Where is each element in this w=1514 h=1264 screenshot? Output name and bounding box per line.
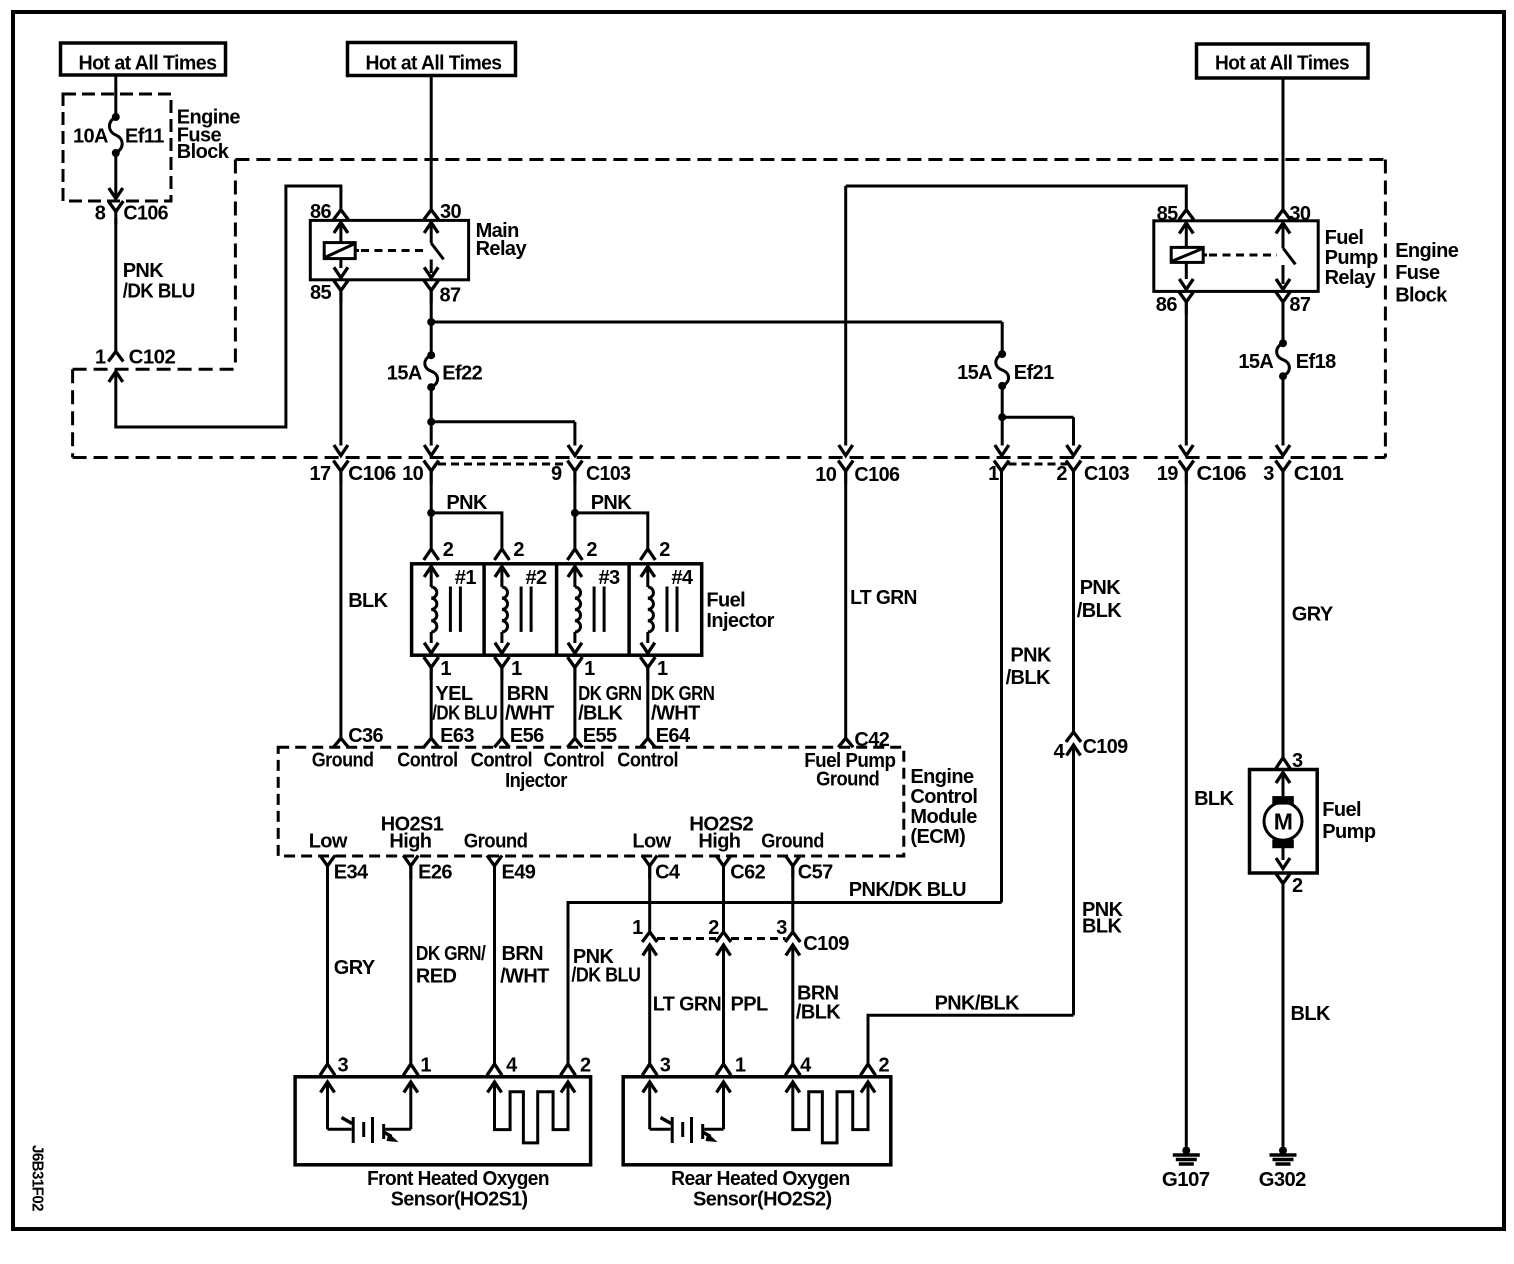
svg-text:/BLK: /BLK (796, 1002, 841, 1024)
svg-text:Control: Control (910, 786, 977, 808)
svg-text:C109: C109 (803, 933, 849, 955)
svg-text:Engine: Engine (1395, 240, 1459, 262)
HO2S1 pin 4 (female) (487, 1064, 502, 1075)
svg-text:C102: C102 (129, 347, 176, 369)
HO2S2 pin 1 (female) (716, 1064, 731, 1075)
wire BLK fuel pump to G302 (1282, 883, 1285, 1147)
svg-text:Engine: Engine (910, 766, 974, 788)
svg-text:1: 1 (657, 658, 668, 680)
connector link dashed C103 10-9 (438, 463, 568, 466)
svg-text:C101: C101 (1294, 463, 1344, 485)
svg-text:10: 10 (402, 463, 424, 485)
svg-text:2: 2 (513, 539, 524, 561)
connector C106 pin 17 (female Y) (333, 461, 348, 472)
svg-text:4: 4 (1054, 741, 1066, 763)
wire fuel pump relay 85 feed (horizontal) (846, 186, 1187, 211)
svg-text:Relay: Relay (476, 238, 528, 260)
wire main relay 85 to C106-17 (339, 290, 342, 446)
svg-text:Ground: Ground (464, 831, 528, 853)
svg-text:1: 1 (632, 917, 643, 939)
svg-text:Hot at All Times: Hot at All Times (79, 53, 217, 75)
svg-text:Front Heated Oxygen: Front Heated Oxygen (367, 1168, 549, 1190)
svg-text:M: M (1274, 809, 1293, 835)
connector C103 pin 10 (female Y) (424, 461, 439, 472)
svg-text:Injector: Injector (706, 610, 774, 632)
ECM pin C57 (Y) (785, 855, 800, 866)
engine fuse block boundary (dashed, left lower edge) (71, 369, 74, 457)
svg-text:87: 87 (440, 285, 462, 307)
wire PNK to injector 1 (430, 513, 433, 549)
pin arrow into C103-2 (1067, 445, 1081, 456)
svg-text:#4: #4 (671, 567, 694, 589)
svg-text:C103: C103 (586, 463, 631, 485)
wire C4 to C109-1 (648, 866, 651, 932)
svg-text:Module: Module (910, 806, 977, 828)
pin arrow out of C102-1 (109, 372, 123, 383)
svg-text:/DK BLU: /DK BLU (432, 703, 497, 725)
svg-text:E26: E26 (418, 862, 452, 884)
wire C103-10 down (430, 471, 433, 513)
svg-text:3: 3 (338, 1055, 349, 1077)
ground G107 (1182, 1147, 1190, 1155)
connector C103 pin 9 (female Y) (567, 461, 582, 472)
svg-text:PNK: PNK (446, 492, 488, 514)
svg-text:Ef11: Ef11 (125, 126, 164, 148)
ECM pin C4 (Y) (642, 855, 657, 866)
connector C109 pin 3 (chevron) (785, 932, 800, 942)
pin arrow out of C109-4 (1067, 745, 1081, 756)
fuse Ef22 15A (427, 351, 435, 359)
svg-text:1: 1 (988, 463, 999, 485)
fuse Ef11 10A (112, 113, 120, 121)
svg-text:/BLK: /BLK (1077, 600, 1122, 622)
connector C109 pin 2 (chevron) (716, 932, 731, 942)
connector C103 pin 1 (female Y) (994, 461, 1009, 472)
ECM pin E55 (female) (567, 738, 582, 747)
fuel pump relay K2 box (1154, 221, 1318, 292)
svg-text:2: 2 (443, 539, 454, 561)
main relay pin 86 (chevron) (333, 210, 348, 220)
wire BLK C106-17 to ECM C36 (339, 471, 342, 738)
pin arrow into C106-10 (839, 445, 853, 456)
svg-text:#3: #3 (599, 567, 621, 589)
engine fuse block (dashed box, top left) (63, 94, 171, 201)
svg-text:Ground: Ground (816, 769, 879, 791)
wire Ef21 down (1001, 386, 1004, 417)
svg-text:C103: C103 (1084, 463, 1130, 485)
svg-text:E34: E34 (334, 862, 369, 884)
svg-text:4: 4 (800, 1055, 812, 1077)
svg-text:/BLK: /BLK (578, 703, 623, 725)
svg-text:Ground: Ground (312, 750, 374, 772)
fuel pump relay pin 30 (chevron) (1276, 210, 1291, 220)
svg-text:PNK: PNK (123, 260, 165, 282)
svg-text:87: 87 (1289, 294, 1311, 316)
engine fuse block boundary (dashed, bottom edge) (73, 456, 1386, 459)
injector cell divider 1 (482, 564, 486, 655)
svg-text:PNK: PNK (1010, 645, 1052, 667)
svg-text:15A: 15A (1238, 351, 1273, 373)
injector #1 pin 1 (Y) (424, 657, 439, 668)
svg-text:19: 19 (1157, 463, 1179, 485)
svg-text:C62: C62 (730, 862, 765, 884)
fuel pump relay pin 85 (chevron) (1179, 210, 1194, 220)
svg-text:E55: E55 (583, 725, 617, 747)
wire PNK/BLK to HO2S2-2 (868, 1015, 1074, 1064)
svg-text:Rear Heated Oxygen: Rear Heated Oxygen (671, 1168, 850, 1190)
connector link dashed C109 2-3 (731, 937, 786, 940)
wire to fuse Ef21 (1001, 322, 1004, 354)
wire Ef21 to C103-1 (1001, 417, 1004, 445)
svg-text:Ef21: Ef21 (1014, 362, 1054, 384)
wire LT GRN C109-1 to HO2S2-3 (648, 945, 651, 1064)
svg-text:15A: 15A (387, 363, 422, 385)
wire BRN/WHT E49 to HO2S1-4 (493, 866, 496, 1064)
svg-text:86: 86 (1156, 294, 1178, 316)
HO2S1 pin 1 (female) (403, 1064, 418, 1075)
pin arrow into C106-17 (334, 445, 348, 456)
wire Ef18 to C101-3 (1282, 376, 1285, 445)
wire hot2 to main relay 30 (430, 76, 433, 211)
fuse Ef18 15A (1279, 339, 1287, 347)
fuel pump relay coil (1171, 247, 1203, 262)
ground G302 (1279, 1147, 1287, 1155)
svg-text:30: 30 (440, 201, 462, 223)
svg-text:1: 1 (584, 658, 595, 680)
svg-text:15A: 15A (957, 362, 992, 384)
ECM pin C36 (female) (333, 738, 348, 747)
wire DK GRN/WHT injector4 to E64 (646, 667, 649, 738)
power tag box 2 Hot at All Times (348, 43, 516, 76)
connector C106 pin 10 (female Y) (838, 461, 853, 472)
ECM pin C42 (female) (838, 738, 853, 747)
svg-text:G302: G302 (1259, 1169, 1306, 1191)
pin arrow into C101-3 (1276, 445, 1290, 456)
main relay pin 30 (chevron) (424, 210, 439, 220)
svg-text:3: 3 (1263, 463, 1274, 485)
wire Ef21 branch to C103-2 (1002, 416, 1073, 419)
ECM pin E34 (Y) (320, 855, 335, 866)
wire DK GRN/RED E26 to HO2S1-1 (409, 866, 412, 1064)
svg-text:4: 4 (506, 1055, 518, 1077)
ECM pin E56 (female) (494, 738, 509, 747)
svg-text:G107: G107 (1162, 1169, 1210, 1191)
junction Ef22 branch (427, 418, 435, 426)
front HO2S1 box (295, 1077, 590, 1165)
connector C103 pin 2 (female Y) (1066, 461, 1081, 472)
svg-text:/BLK: /BLK (1006, 667, 1051, 689)
svg-text:2: 2 (879, 1055, 890, 1077)
wire PPL C109-2 to HO2S2-1 (722, 945, 725, 1064)
junction Ef21 branch (998, 413, 1006, 421)
wire C103-9 down (573, 471, 576, 513)
svg-text:Control: Control (617, 750, 678, 772)
wire LT GRN riser top (844, 186, 847, 446)
svg-text:2: 2 (659, 539, 670, 561)
svg-text:High: High (389, 831, 431, 853)
pin arrow into C106-19 (1179, 445, 1193, 456)
svg-text:/DK BLU: /DK BLU (571, 965, 640, 987)
wire fp relay 87 to fuse Ef18 (1282, 302, 1285, 344)
pin arrow into C106-8 (109, 188, 123, 199)
svg-text:Control: Control (397, 750, 457, 772)
svg-text:1: 1 (95, 347, 106, 369)
injector #4 nozzle bars (666, 587, 669, 632)
main relay switch (424, 223, 438, 234)
wire hot3 to fuel pump relay 30 (1282, 78, 1285, 210)
connector link dashed C109 1-2 (657, 937, 716, 940)
svg-text:Pump: Pump (1322, 821, 1376, 843)
wire PNK to injector 3 (573, 513, 576, 549)
svg-text:PNK: PNK (591, 492, 633, 514)
main relay coil (324, 243, 355, 259)
svg-text:Fuel: Fuel (1325, 227, 1364, 249)
svg-text:Relay: Relay (1325, 267, 1377, 289)
svg-text:BLK: BLK (348, 590, 388, 612)
main relay coil-switch link (dashed) (355, 249, 359, 252)
ECM pin E26 (Y) (403, 855, 418, 866)
svg-text:#2: #2 (526, 567, 548, 589)
svg-text:C109: C109 (1083, 736, 1128, 758)
wire C57 to C109-3 (791, 866, 794, 932)
svg-text:Block: Block (177, 141, 230, 163)
svg-text:BRN: BRN (502, 943, 544, 965)
wire PNK to injector 4 (575, 513, 648, 549)
svg-text:Fuel: Fuel (706, 590, 745, 612)
svg-text:LT GRN: LT GRN (653, 994, 722, 1016)
svg-text:E56: E56 (510, 725, 544, 747)
fuel pump relay pin 87 (Y) (1276, 291, 1291, 302)
svg-text:Ef18: Ef18 (1296, 351, 1336, 373)
svg-text:/WHT: /WHT (505, 703, 554, 725)
HO2S2 sensing element (643, 1082, 657, 1093)
injector #3 pin 1 (Y) (567, 657, 582, 668)
svg-text:C106: C106 (348, 463, 396, 485)
svg-text:E63: E63 (440, 725, 474, 747)
svg-text:C42: C42 (854, 729, 889, 751)
svg-text:Fuel: Fuel (1322, 799, 1361, 821)
HO2S2 pin 4 (female) (785, 1064, 800, 1075)
junction main relay 87 branch (427, 318, 435, 326)
svg-text:Control: Control (544, 750, 605, 772)
pin arrow out of C109-1 (643, 945, 657, 956)
power tag box 3 Hot at All Times (1197, 44, 1369, 78)
svg-text:RED: RED (416, 966, 457, 988)
svg-text:Injector: Injector (505, 770, 568, 792)
svg-text:C36: C36 (348, 725, 383, 747)
svg-text:86: 86 (310, 201, 332, 223)
svg-text:J6B31F02: J6B31F02 (29, 1145, 46, 1212)
wire PNK/BLK C103-1 down (1000, 471, 1003, 903)
ECM pin E63 (female) (424, 738, 439, 747)
svg-text:C106: C106 (1197, 463, 1247, 485)
fuel pump pin 3 (female) (1276, 758, 1291, 769)
HO2S2 pin 2 (female) (861, 1064, 876, 1075)
svg-text:BLK: BLK (1291, 1003, 1331, 1025)
wire main relay 87 down (430, 290, 433, 322)
injector #1 coil (424, 567, 438, 578)
svg-text:/WHT: /WHT (500, 966, 549, 988)
svg-text:C4: C4 (655, 862, 681, 884)
svg-text:Hot at All Times: Hot at All Times (366, 53, 502, 75)
HO2S1 pin 2 (female) (561, 1064, 576, 1075)
wire PNK/DK BLU C103-1 to HO2S1-2 (568, 903, 1002, 1065)
wire C102-1 to main relay 86 (L-path) (116, 186, 341, 427)
injector #2 pin 2 (female) (494, 549, 509, 560)
main relay pin 87 (Y) (424, 280, 439, 291)
injector #3 pin 2 (female) (567, 549, 582, 560)
HO2S1 sensing element (321, 1082, 335, 1093)
fuel pump relay switch (1276, 223, 1290, 234)
svg-text:2: 2 (586, 539, 597, 561)
pin arrow out of C109-2 (717, 945, 731, 956)
engine fuse block boundary (dashed, top edge) (235, 158, 1385, 161)
svg-text:BLK: BLK (1194, 788, 1234, 810)
main relay K1 box (310, 220, 468, 279)
svg-text:Pump: Pump (1325, 247, 1379, 269)
connector C106 pin 8 (female Y) (108, 201, 123, 212)
injector #2 coil (495, 567, 509, 578)
svg-text:Sensor(HO2S1): Sensor(HO2S1) (391, 1189, 528, 1211)
svg-text:E49: E49 (502, 862, 536, 884)
svg-text:Ef22: Ef22 (442, 363, 482, 385)
injector #3 nozzle bars (593, 587, 596, 632)
fuel pump relay pin 86 (Y) (1179, 291, 1194, 302)
svg-text:Sensor(HO2S2): Sensor(HO2S2) (693, 1189, 832, 1211)
svg-text:1: 1 (420, 1055, 431, 1077)
engine fuse block boundary (dashed, right edge) (1384, 160, 1387, 458)
wire PNK/BLK C103-2 to C109-4 (1072, 471, 1075, 732)
svg-text:DK GRN/: DK GRN/ (416, 943, 486, 965)
svg-text:2: 2 (580, 1055, 591, 1077)
svg-text:10: 10 (815, 464, 837, 486)
svg-text:#1: #1 (455, 567, 477, 589)
svg-text:Block: Block (1395, 285, 1448, 307)
svg-text:3: 3 (776, 917, 787, 939)
svg-text:85: 85 (310, 282, 332, 304)
svg-text:(ECM): (ECM) (910, 826, 965, 848)
injector #4 coil (641, 567, 655, 578)
connector C102 pin 1 (chevron) (108, 352, 123, 362)
HO2S1 pin 3 (female) (320, 1064, 335, 1075)
wire main relay 87 to fuse Ef21 (horizontal) (431, 321, 1002, 324)
svg-text:Low: Low (632, 831, 671, 853)
svg-text:10A: 10A (73, 126, 108, 148)
svg-text:PNK/DK BLU: PNK/DK BLU (849, 879, 966, 901)
wire BRN/WHT injector2 to E56 (500, 667, 503, 738)
svg-text:BLK: BLK (1082, 916, 1122, 938)
svg-text:PNK/BLK: PNK/BLK (935, 993, 1020, 1015)
svg-text:C57: C57 (798, 862, 833, 884)
svg-text:C106: C106 (123, 203, 168, 225)
wire C62 to C109-2 (722, 866, 725, 932)
injector #2 nozzle bars (520, 587, 523, 632)
wire DK GRN/BLK injector3 to E55 (573, 667, 576, 738)
injector cell divider 3 (627, 564, 631, 655)
wire BRN/BLK C109-3 to HO2S2-4 (791, 945, 794, 1064)
svg-text:E64: E64 (656, 725, 691, 747)
fuel injector box (412, 564, 702, 655)
svg-text:1: 1 (735, 1055, 746, 1077)
svg-text:2: 2 (1292, 875, 1303, 897)
HO2S2 heater element (786, 1082, 800, 1093)
svg-text:GRY: GRY (334, 957, 376, 979)
fuel pump relay coil-switch link (dashed) (1203, 254, 1207, 257)
HO2S1 heater element (488, 1082, 502, 1093)
rear HO2S2 box (623, 1077, 891, 1165)
wire GRY C101-3 to fuel pump (1282, 471, 1285, 759)
injector #4 pin 1 (Y) (640, 657, 655, 668)
svg-text:LT GRN: LT GRN (850, 587, 917, 609)
junction PNK split 2 (571, 509, 579, 517)
ECM pin E64 (female) (640, 738, 655, 747)
pin arrow into C103-10 (424, 445, 438, 456)
pin arrow into C103-9 (568, 445, 582, 456)
wire Ef11 to connector C106-8 (114, 153, 117, 198)
svg-text:Control: Control (471, 750, 533, 772)
ECM box (dashed) (278, 747, 904, 856)
injector cell divider 2 (555, 564, 559, 655)
wire Ef22 down (430, 387, 433, 422)
fuel pump pin 2 (Y) (1276, 873, 1291, 884)
svg-text:85: 85 (1157, 203, 1179, 225)
svg-text:Fuse: Fuse (1395, 262, 1440, 284)
wire Ef22 to C103-10 (430, 422, 433, 446)
wire YEL/DK BLU injector1 to E63 (430, 667, 433, 738)
junction PNK split 1 (427, 509, 435, 517)
wire LT GRN C106-10 to ECM C42 (844, 471, 847, 738)
wire fp relay 86 to C106-19 (1185, 302, 1188, 446)
injector #1 pin 2 (female) (424, 549, 439, 560)
svg-text:1: 1 (440, 658, 451, 680)
connector C106 pin 19 (female Y) (1179, 461, 1194, 472)
svg-text:3: 3 (660, 1055, 671, 1077)
svg-text:/WHT: /WHT (651, 703, 700, 725)
svg-text:Low: Low (309, 831, 348, 853)
svg-text:GRY: GRY (1292, 604, 1334, 626)
connector C101 pin 3 (female Y) (1276, 461, 1291, 472)
svg-text:2: 2 (1056, 463, 1067, 485)
fuel pump box (1250, 770, 1318, 874)
svg-text:High: High (698, 831, 740, 853)
svg-text:1: 1 (511, 658, 522, 680)
wire hot1 to fuse Ef11 (114, 75, 117, 117)
injector #3 coil (568, 567, 582, 578)
pin arrow into C103-1 (995, 445, 1009, 456)
pin arrow out of C109-3 (786, 945, 800, 956)
connector C109 pin 4 (chevron) (1066, 732, 1081, 742)
injector #2 pin 1 (Y) (494, 657, 509, 668)
engine fuse block boundary (dashed, left upper edge) (234, 160, 237, 370)
svg-text:9: 9 (551, 463, 562, 485)
main relay pin 85 (Y) (333, 280, 348, 291)
engine fuse block boundary (dashed, notch edge) (73, 368, 236, 371)
wire PNK BLK C109-4 down (1072, 745, 1075, 1015)
fuel pump motor (1276, 773, 1290, 784)
injector #4 pin 2 (female) (640, 549, 655, 560)
connector link dashed C103 1-2 (1009, 463, 1068, 466)
svg-text:8: 8 (95, 203, 106, 225)
svg-text:PPL: PPL (731, 994, 768, 1016)
wire GRY E34 to HO2S1-3 (326, 866, 329, 1064)
fuse Ef21 15A (998, 350, 1006, 358)
connector C109 pin 1 (chevron) (642, 932, 657, 942)
fuel pump relay coil arrows (1179, 223, 1193, 234)
ECM pin C62 (Y) (716, 855, 731, 866)
main relay coil arrows (334, 223, 348, 234)
svg-text:17: 17 (310, 463, 332, 485)
wire BLK C106-19 to G107 (1185, 471, 1188, 1147)
